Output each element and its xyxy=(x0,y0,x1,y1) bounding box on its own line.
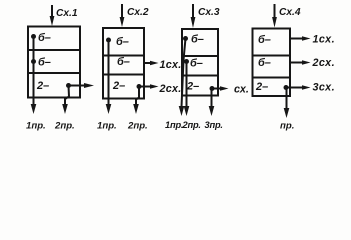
svg-text:3пр.: 3пр. xyxy=(205,120,223,130)
arrowhead 2сх U4 xyxy=(302,60,311,65)
wire: U1 bottom dot down to 2пр xyxy=(65,86,69,107)
svg-text:2пр.: 2пр. xyxy=(127,121,148,132)
wire: U4 mid output right to 2сх xyxy=(290,62,304,64)
arrowhead сх U3 xyxy=(220,86,229,91)
wire: input arrow into block 2 xyxy=(121,5,123,19)
wire: U1 output right xyxy=(69,85,87,87)
arrowhead into U2 xyxy=(120,17,125,27)
svg-text:2–: 2– xyxy=(112,80,125,92)
block U3 (Сх.3) box xyxy=(182,29,218,96)
arrowhead 2пр U2 xyxy=(133,104,139,114)
arrowhead into U1 xyxy=(50,16,55,26)
wire: U2 left line down to 1пр xyxy=(108,40,110,106)
node: junction dot U3 bottom xyxy=(210,86,215,91)
svg-text:1пр.: 1пр. xyxy=(165,120,183,130)
svg-text:сх.: сх. xyxy=(234,84,249,96)
svg-text:2–: 2– xyxy=(36,80,49,92)
svg-text:б–: б– xyxy=(190,58,203,70)
block U2 (Сх.2) box xyxy=(103,28,144,99)
wire: U4 top output right to 1сх xyxy=(290,38,304,40)
svg-text:2пр.: 2пр. xyxy=(54,121,75,132)
arrowhead 1пр U1 xyxy=(31,104,37,114)
svg-text:3сх.: 3сх. xyxy=(313,82,335,94)
svg-text:1сх.: 1сх. xyxy=(313,34,335,46)
wire: U3 line from top dot down to 1пр xyxy=(182,39,186,108)
svg-text:2сх.: 2сх. xyxy=(312,57,335,69)
svg-text:1сх.: 1сх. xyxy=(160,59,182,71)
svg-text:пр.: пр. xyxy=(280,121,294,132)
arrowhead 1пр U2 xyxy=(106,104,112,114)
divider U1 section2/3 xyxy=(28,72,80,74)
node: junction dot U1 bottom section xyxy=(66,83,71,88)
arrowhead 3пр U3 xyxy=(209,106,215,116)
node: junction dot U4 bottom xyxy=(284,85,289,90)
node: junction dot U3 mid xyxy=(184,59,189,64)
block U4 (Сх.4) box xyxy=(253,29,291,97)
svg-text:1пр.: 1пр. xyxy=(97,121,117,132)
wire: input arrow into block 3 xyxy=(192,5,194,19)
node: junction dot U1 top xyxy=(31,34,36,39)
wire: U2 mid output right to 1сх xyxy=(144,62,152,64)
wire: U1 left line down to 1пр xyxy=(33,37,35,107)
svg-text:2–: 2– xyxy=(186,81,199,93)
divider U1 section1/2 xyxy=(28,49,80,51)
arrowhead 2пр U1 xyxy=(62,104,68,114)
arrowhead 1пр U3 xyxy=(179,106,185,116)
block U1 (Сх.1) box xyxy=(28,27,80,98)
arrowhead into U3 xyxy=(191,17,196,28)
svg-text:Сх.4: Сх.4 xyxy=(279,7,301,18)
divider U2 section1/2 xyxy=(103,55,144,57)
divider U3 section2/3 xyxy=(182,75,218,77)
wire: U3 bottom dot down to 3пр xyxy=(211,89,213,108)
svg-text:б–: б– xyxy=(191,34,204,46)
svg-text:б–: б– xyxy=(38,32,51,44)
wire: U2 bottom output right to 2сх xyxy=(139,86,152,88)
arrowhead 2сх U2 xyxy=(150,84,159,89)
arrowhead пр U4 xyxy=(284,108,290,118)
divider U4 section1/2 xyxy=(253,55,291,57)
wire: input arrow into block 4 xyxy=(274,5,276,19)
svg-text:б–: б– xyxy=(117,56,130,68)
arrowhead 3сх U4 xyxy=(302,85,311,90)
svg-text:Сх.2: Сх.2 xyxy=(127,7,149,18)
svg-text:Сх.3: Сх.3 xyxy=(198,7,220,18)
svg-text:2сх.: 2сх. xyxy=(159,83,182,95)
node: junction dot U2 top xyxy=(106,38,111,43)
wire: U4 bottom dot down to пр xyxy=(286,88,288,110)
arrowhead U1 right output xyxy=(84,83,94,88)
svg-text:1пр.: 1пр. xyxy=(26,121,46,132)
svg-text:б–: б– xyxy=(258,57,271,69)
svg-text:2–: 2– xyxy=(255,81,268,93)
divider U2 section2/3 xyxy=(103,74,144,76)
node: junction dot U1 mid xyxy=(31,59,36,64)
svg-text:Сх.1: Сх.1 xyxy=(56,8,78,19)
arrowhead 2пр U3 xyxy=(184,106,190,116)
svg-text:2пр.: 2пр. xyxy=(182,120,201,130)
wire: U3 bottom output right to сх xyxy=(212,88,222,90)
node: junction dot U3 top xyxy=(183,36,188,41)
divider U4 section2/3 xyxy=(253,77,291,79)
wire: U3 line from mid dot down to 2пр xyxy=(186,62,188,108)
svg-text:б–: б– xyxy=(116,36,129,48)
node: junction dot U2 bottom xyxy=(137,84,142,89)
arrowhead 1сх U4 xyxy=(302,36,311,41)
wire: U4 bottom output right to 3сх xyxy=(286,87,304,89)
divider U3 section1/2 xyxy=(182,55,218,57)
wire: input arrow into block 1 xyxy=(51,6,53,17)
arrowhead into U4 xyxy=(272,17,277,28)
svg-text:б–: б– xyxy=(38,57,51,69)
wire: U2 bottom dot down to 2пр xyxy=(136,87,139,107)
svg-text:б–: б– xyxy=(258,34,271,46)
arrowhead 1сх U2 xyxy=(150,61,159,66)
